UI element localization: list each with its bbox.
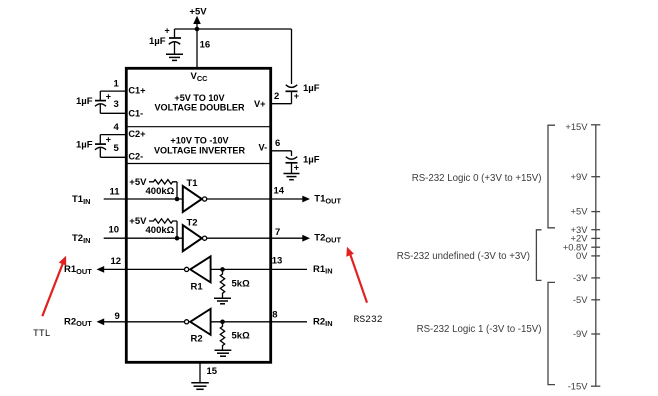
section divider line 1 [126, 126, 270, 128]
svg-text:RS232: RS232 [354, 314, 383, 325]
svg-text:R2: R2 [191, 334, 203, 345]
svg-text:C1-: C1- [128, 108, 143, 118]
wire T2 input [104, 237, 183, 239]
svg-text:2: 2 [274, 91, 279, 102]
svg-text:12: 12 [111, 256, 122, 267]
svg-text:+: + [106, 135, 111, 145]
svg-text:1µF: 1µF [303, 155, 320, 166]
arrow TTL (red) [42, 256, 66, 317]
node junction dot R2 input [220, 320, 225, 325]
arrow T1OUT [302, 196, 310, 203]
svg-text:-3V: -3V [573, 272, 588, 283]
svg-text:1: 1 [114, 79, 120, 90]
svg-text:VCC: VCC [191, 71, 209, 83]
wire pin 5 stub [100, 156, 126, 158]
op-amp R2 receiver triangle [185, 309, 211, 345]
svg-text:T2: T2 [187, 217, 198, 228]
svg-text:1µF: 1µF [76, 96, 93, 107]
svg-text:+: + [294, 91, 299, 101]
svg-text:9: 9 [115, 311, 120, 322]
svg-text:C2-: C2- [128, 152, 143, 162]
svg-text:-5V: -5V [573, 294, 588, 305]
svg-text:+: + [165, 26, 170, 36]
svg-text:RS-232 Logic 1 (-3V to -15V): RS-232 Logic 1 (-3V to -15V) [417, 324, 542, 335]
wire pin 6 stub [270, 150, 291, 152]
arrow R1OUT [97, 266, 105, 273]
svg-text:8: 8 [272, 310, 277, 321]
tick -3V [591, 277, 600, 279]
svg-text:7: 7 [275, 227, 280, 238]
svg-text:R1: R1 [191, 281, 204, 292]
svg-text:RS-232 undefined (-3V to +3V): RS-232 undefined (-3V to +3V) [397, 251, 530, 262]
svg-text:VOLTAGE DOUBLER: VOLTAGE DOUBLER [154, 102, 245, 112]
tick +0.8V [591, 246, 600, 248]
svg-text:R1OUT: R1OUT [64, 264, 92, 276]
svg-text:RS-232 Logic 0 (+3V to +15V): RS-232 Logic 0 (+3V to +15V) [412, 173, 542, 184]
svg-text:R1IN: R1IN [313, 264, 333, 276]
tick -5V [591, 299, 600, 301]
wire T1 output [207, 198, 304, 200]
wire pin 1 stub [100, 90, 126, 92]
node junction dot R1 input [220, 267, 225, 272]
wire R2 output [103, 321, 185, 323]
wire pin 3 stub [100, 112, 126, 114]
ground (R2 5k) [215, 350, 232, 356]
svg-text:-15V: -15V [568, 380, 589, 391]
svg-text:13: 13 [272, 256, 283, 267]
tick +5V [591, 211, 600, 213]
svg-text:T2IN: T2IN [72, 233, 91, 245]
svg-text:V+: V+ [254, 99, 266, 109]
node junction dot on +5V rail [195, 27, 200, 32]
svg-text:VOLTAGE INVERTER: VOLTAGE INVERTER [154, 145, 246, 155]
capacitor 1uF (V-) [286, 151, 320, 173]
node +5V supply label [189, 7, 207, 30]
svg-text:-9V: -9V [573, 328, 588, 339]
svg-text:1µF: 1µF [149, 36, 166, 47]
ground (pin 15) [191, 383, 209, 390]
resistor 5k (R2) [220, 322, 250, 350]
svg-text:C1+: C1+ [128, 86, 145, 96]
node junction dot T1 input [175, 197, 180, 202]
op-amp R1 receiver triangle [185, 256, 211, 292]
svg-text:+: + [106, 91, 111, 101]
wire right rail to V+ cap [291, 29, 293, 84]
svg-text:15: 15 [207, 366, 218, 377]
ground (R1 5k) [214, 298, 231, 304]
svg-text:400kΩ: 400kΩ [146, 225, 175, 236]
wire R1 input [211, 268, 307, 270]
svg-text:3: 3 [114, 99, 119, 110]
svg-text:+5V: +5V [129, 216, 147, 227]
bracket logic 1 [548, 282, 555, 384]
resistor 5k (R1) [220, 269, 250, 297]
wire pin 4 stub [100, 134, 126, 136]
svg-text:400kΩ: 400kΩ [146, 186, 175, 197]
svg-text:4: 4 [114, 122, 120, 133]
svg-text:0V: 0V [576, 250, 588, 261]
svg-text:T1: T1 [187, 178, 199, 189]
arrow R2OUT [97, 318, 105, 325]
ground (V- cap) [284, 174, 300, 180]
section divider line 2 [126, 163, 270, 165]
svg-text:TTL: TTL [33, 328, 51, 339]
tick +9V [591, 176, 600, 178]
svg-text:11: 11 [110, 187, 121, 198]
svg-text:+5V: +5V [189, 7, 207, 18]
capacitor 1uF (top left bypass) [149, 26, 181, 55]
capacitor C1 1uF [76, 91, 111, 113]
wire pin 2 stub [270, 103, 291, 105]
tick +2V [591, 237, 600, 239]
arrow RS232 (red) [346, 247, 367, 303]
op-amp T1 driver triangle [183, 178, 207, 212]
svg-text:+5V: +5V [129, 177, 147, 188]
wire pin 16 to VCC [196, 29, 198, 68]
svg-text:+15V: +15V [565, 121, 588, 132]
svg-text:1µF: 1µF [303, 83, 320, 94]
svg-text:1µF: 1µF [76, 140, 93, 151]
svg-text:T1IN: T1IN [72, 194, 91, 206]
svg-text:+9V: +9V [571, 171, 589, 182]
IC box U1 outline [126, 68, 270, 362]
svg-text:6: 6 [275, 138, 280, 149]
svg-text:+: + [294, 163, 299, 173]
wire R2 input [211, 321, 307, 323]
svg-text:T1OUT: T1OUT [314, 194, 341, 206]
wire T1 input [104, 198, 183, 200]
tick -9V [591, 333, 600, 335]
svg-text:+5V TO 10V: +5V TO 10V [174, 93, 224, 103]
svg-text:+10V TO -10V: +10V TO -10V [170, 135, 228, 145]
tick +3V [591, 229, 600, 231]
scale axis line [591, 125, 600, 386]
wire R1 output [103, 268, 185, 270]
svg-text:5kΩ: 5kΩ [232, 279, 251, 290]
svg-text:R2IN: R2IN [313, 316, 333, 328]
svg-text:14: 14 [274, 185, 285, 196]
svg-text:V-: V- [259, 143, 268, 153]
svg-text:+5V: +5V [571, 206, 589, 217]
bracket logic 0 [548, 125, 555, 228]
svg-text:R2OUT: R2OUT [64, 316, 92, 328]
wire pin 15 stub [199, 362, 201, 382]
tick 0V [591, 255, 600, 257]
node junction dot T2 input [175, 236, 180, 241]
svg-text:T2OUT: T2OUT [314, 233, 341, 245]
wire T2 output [207, 237, 304, 239]
wire top +5V rail [175, 28, 292, 30]
label voltage inverter [154, 135, 246, 155]
resistor 400k (T1) [146, 180, 178, 199]
bracket undefined [536, 230, 541, 281]
svg-text:C2+: C2+ [128, 129, 145, 139]
op-amp T2 driver triangle [183, 217, 207, 251]
capacitor 1uF (V+ to VCC) [286, 83, 320, 104]
resistor 400k (T2) [146, 219, 178, 238]
label voltage doubler [154, 93, 245, 113]
capacitor C2 1uF [76, 135, 111, 158]
svg-text:5kΩ: 5kΩ [232, 330, 251, 341]
svg-text:5: 5 [114, 143, 120, 154]
arrow T2OUT [302, 235, 310, 242]
svg-text:10: 10 [109, 225, 120, 236]
svg-text:16: 16 [200, 40, 211, 51]
ground (top left cap) [166, 54, 183, 60]
